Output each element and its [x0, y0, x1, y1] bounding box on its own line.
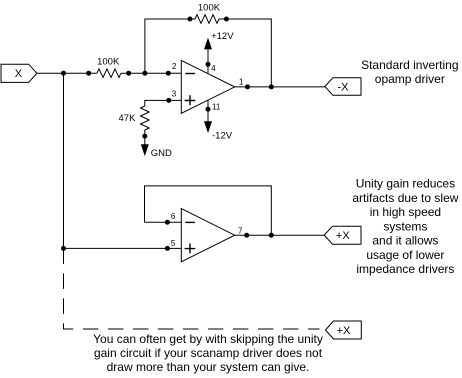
svg-text:opamp driver: opamp driver: [375, 72, 445, 86]
svg-text:+X: +X: [336, 230, 350, 242]
svg-text:3: 3: [172, 89, 177, 98]
svg-text:usage of lower: usage of lower: [366, 248, 444, 262]
svg-text:and it allows: and it allows: [372, 234, 438, 248]
svg-text:draw more than your system can: draw more than your system can give.: [107, 360, 310, 374]
svg-text:You can often get by with skip: You can often get by with skipping the u…: [93, 332, 323, 346]
svg-text:100K: 100K: [198, 2, 221, 13]
svg-text:47K: 47K: [119, 113, 137, 124]
svg-text:+X: +X: [337, 325, 351, 337]
svg-text:6: 6: [171, 212, 176, 221]
svg-text:5: 5: [171, 239, 176, 248]
svg-text:systems: systems: [383, 219, 427, 233]
svg-text:impedance drivers: impedance drivers: [356, 262, 454, 276]
svg-text:1: 1: [239, 77, 244, 86]
svg-text:Standard inverting: Standard inverting: [361, 58, 458, 72]
svg-text:Unity gain reduces: Unity gain reduces: [356, 177, 455, 191]
svg-text:GND: GND: [151, 148, 172, 159]
svg-text:4: 4: [211, 64, 216, 73]
svg-text:100K: 100K: [97, 57, 120, 68]
svg-text:+12V: +12V: [211, 31, 234, 42]
svg-text:gain circuit if your scanamp d: gain circuit if your scanamp driver does…: [94, 346, 323, 360]
svg-text:in high speed: in high speed: [370, 205, 441, 219]
svg-text:2: 2: [172, 62, 177, 71]
svg-text:artifacts due to slew: artifacts due to slew: [352, 191, 458, 205]
svg-text:X: X: [15, 68, 23, 80]
svg-text:11: 11: [212, 103, 221, 112]
svg-text:-12V: -12V: [212, 130, 233, 141]
svg-text:-X: -X: [338, 82, 350, 94]
svg-text:7: 7: [238, 226, 243, 235]
